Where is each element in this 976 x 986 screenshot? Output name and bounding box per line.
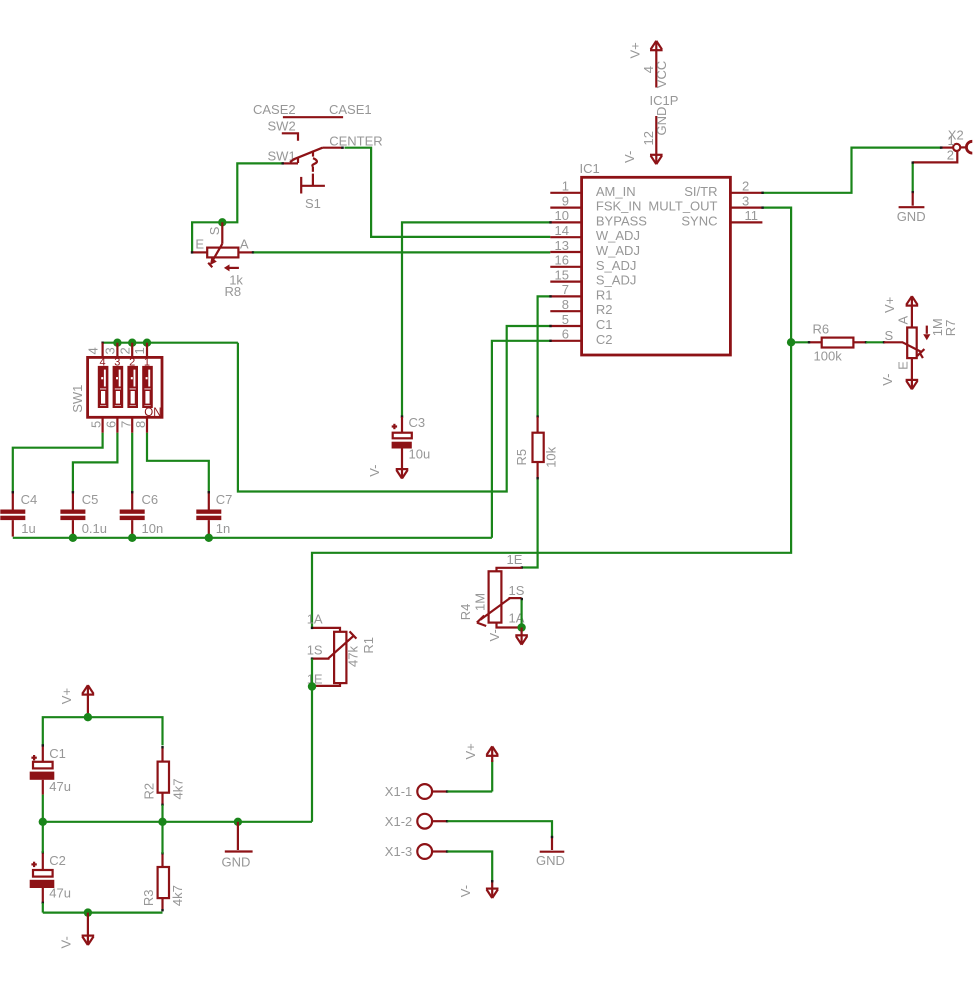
junction C1/C2	[39, 818, 47, 826]
svg-text:R7: R7	[943, 320, 958, 337]
IC1 right pin numbers	[742, 179, 758, 224]
wire R3 top to mid rail	[161, 822, 163, 854]
power symbol IC1P	[650, 41, 663, 164]
svg-text:AM_IN: AM_IN	[596, 184, 636, 199]
capacitor C3 10u polarized	[392, 417, 412, 449]
svg-text:47k: 47k	[346, 646, 361, 667]
svg-text:V-: V-	[458, 885, 473, 897]
capacitor C4 1u	[0, 491, 25, 537]
svg-text:GND: GND	[536, 853, 565, 868]
svg-text:16: 16	[555, 253, 569, 268]
junction C7 bottom	[205, 534, 213, 542]
SW1 inside numbers 4 3 2 1	[100, 356, 151, 368]
svg-text:1: 1	[144, 356, 150, 368]
SW1 slide element 4	[99, 367, 107, 407]
svg-text:R2: R2	[596, 302, 613, 317]
svg-text:C3: C3	[409, 415, 426, 430]
IC1 left pin leads	[550, 193, 581, 341]
svg-text:S1: S1	[305, 196, 321, 211]
wire X1-2 to GND	[448, 821, 553, 837]
svg-text:5: 5	[89, 421, 104, 428]
svg-text:CENTER: CENTER	[329, 134, 382, 149]
connector pin X1-3	[417, 844, 448, 859]
svg-text:100k: 100k	[814, 349, 843, 364]
wire mid GND rail	[43, 821, 312, 823]
wire C2 top to mid rail	[42, 822, 44, 853]
R8 adjust arrow	[224, 264, 239, 271]
IC1 left pin numbers	[555, 179, 569, 342]
svg-text:R4: R4	[458, 604, 473, 621]
SW1 top pin numbers	[86, 347, 147, 354]
svg-text:2: 2	[129, 356, 135, 368]
capacitor C2 47u polarized	[30, 851, 55, 904]
svg-text:3: 3	[102, 347, 117, 354]
connector pin X1-1	[417, 784, 448, 799]
svg-text:1S: 1S	[509, 583, 525, 598]
trimmer R1 47k	[311, 627, 357, 686]
svg-text:X1-2: X1-2	[385, 814, 412, 829]
supply V- (C2 R3 rail)	[82, 913, 95, 945]
svg-text:R5: R5	[514, 449, 529, 466]
junction C5 bottom	[69, 534, 77, 542]
IC1 left pin names	[596, 184, 647, 347]
svg-text:V+: V+	[628, 42, 643, 58]
svg-text:C6: C6	[142, 492, 159, 507]
svg-text:10u: 10u	[409, 446, 431, 461]
svg-text:GND: GND	[654, 107, 669, 136]
svg-text:5: 5	[562, 312, 569, 327]
svg-text:0.1u: 0.1u	[82, 521, 107, 536]
wire C1 bottom to mid rail	[42, 795, 44, 822]
svg-text:BYPASS: BYPASS	[596, 213, 647, 228]
svg-text:10n: 10n	[142, 521, 164, 536]
svg-text:11: 11	[745, 208, 759, 223]
svg-text:3: 3	[114, 356, 120, 368]
supply V+ (X1-1)	[486, 746, 499, 762]
wire R4 1S to 1A	[521, 598, 523, 628]
dip switch SW1	[88, 343, 162, 433]
junction SW1 pin 2	[128, 339, 136, 347]
C2 plus sign	[31, 862, 36, 867]
svg-text:4k7: 4k7	[170, 885, 185, 906]
svg-text:V-: V-	[59, 936, 74, 948]
SW1 slide element 3	[114, 367, 122, 407]
svg-text:X1-3: X1-3	[385, 844, 412, 859]
svg-text:GND: GND	[222, 855, 251, 870]
supply V- below R4	[515, 628, 528, 645]
svg-text:V+: V+	[463, 743, 478, 759]
svg-text:W_ADJ: W_ADJ	[596, 228, 640, 243]
svg-text:E: E	[195, 237, 204, 252]
svg-text:SW2: SW2	[268, 119, 296, 134]
svg-text:1M: 1M	[472, 593, 487, 611]
capacitor C6 10n	[120, 491, 145, 537]
svg-text:SW1: SW1	[70, 385, 85, 413]
supply V+ above R7	[906, 296, 919, 327]
svg-text:IC1: IC1	[580, 161, 600, 176]
svg-text:6: 6	[562, 327, 569, 342]
wire IC1 pin 6 C2 to capacitor rail	[492, 340, 552, 538]
svg-text:2: 2	[117, 347, 132, 354]
svg-text:47u: 47u	[49, 779, 71, 794]
junction SW1 pin 1	[143, 339, 151, 347]
svg-text:1u: 1u	[21, 521, 35, 536]
C1 plus sign	[31, 755, 36, 760]
wire V+ rail C1 R2	[43, 717, 163, 745]
svg-text:R2: R2	[142, 783, 157, 800]
wire R8 A to IC1 pin 13	[254, 251, 551, 253]
svg-text:C2: C2	[49, 853, 66, 868]
wire capacitor bottom rail to IC1 pin 5	[13, 537, 492, 539]
svg-text:A: A	[240, 237, 249, 252]
svg-text:1n: 1n	[216, 521, 230, 536]
wire bottom V- rail	[42, 903, 44, 913]
supply V- below R7	[906, 358, 919, 389]
junction V+ stem	[84, 713, 92, 721]
wire R5 to R4 pin 1E	[521, 477, 539, 569]
svg-text:C1: C1	[49, 746, 66, 761]
svg-text:C1: C1	[596, 317, 613, 332]
junction SW1 pin 3	[113, 339, 121, 347]
svg-text:IC1P: IC1P	[650, 93, 679, 108]
svg-text:2: 2	[947, 148, 954, 163]
svg-text:E: E	[896, 361, 911, 370]
svg-text:V+: V+	[882, 297, 897, 313]
wire SW1 pin 6 to C5	[73, 433, 118, 493]
svg-text:SI/TR: SI/TR	[684, 184, 717, 199]
resistor R6 100k	[808, 338, 867, 348]
junction R2/R3	[158, 818, 166, 826]
svg-text:CASE2: CASE2	[253, 102, 296, 117]
svg-text:12: 12	[641, 131, 656, 145]
svg-text:14: 14	[555, 223, 569, 238]
svg-text:6: 6	[104, 421, 119, 428]
svg-text:1E: 1E	[507, 552, 523, 567]
svg-text:R1: R1	[361, 637, 376, 654]
svg-text:A: A	[896, 316, 911, 325]
capacitor C1 47u polarized	[30, 744, 55, 794]
potentiometer R8 1k	[191, 222, 254, 267]
junction V- stem	[84, 908, 92, 916]
wire IC1 pin 7 R1 to R5	[536, 295, 551, 418]
svg-text:V+: V+	[59, 688, 74, 704]
svg-text:1: 1	[562, 179, 569, 194]
switch SW1 lever and pin	[283, 147, 344, 164]
connector pin X1-2	[417, 814, 448, 829]
push switch S1	[301, 177, 325, 194]
trimmer R4 1M	[477, 568, 522, 628]
svg-text:C5: C5	[82, 492, 99, 507]
svg-text:7: 7	[118, 421, 133, 428]
ground symbol GND (X2)	[899, 193, 925, 207]
svg-text:C4: C4	[21, 492, 38, 507]
capacitor C5 0.1u	[60, 491, 85, 537]
svg-text:15: 15	[555, 267, 569, 282]
IC1 box	[582, 177, 731, 355]
svg-text:1: 1	[132, 347, 147, 354]
svg-text:SYNC: SYNC	[681, 213, 717, 228]
junction GND stem	[234, 818, 242, 826]
wire junction to R6	[791, 341, 809, 343]
svg-text:8: 8	[133, 421, 148, 428]
svg-text:1S: 1S	[307, 642, 323, 657]
trimmer R7 1M	[884, 328, 924, 359]
wire X1-1 to V+	[448, 790, 493, 792]
svg-text:R3: R3	[141, 889, 156, 906]
capacitor C7 1n	[196, 491, 221, 537]
svg-text:2: 2	[742, 179, 749, 194]
wire SW1 pin 7 to C6	[131, 433, 133, 493]
C3 plus sign	[392, 424, 397, 429]
svg-text:V-: V-	[487, 629, 502, 641]
svg-text:S: S	[885, 328, 894, 343]
resistor R3 4k7	[158, 852, 169, 911]
svg-text:X1-1: X1-1	[385, 784, 412, 799]
wire SW1 pin 8 to C7	[147, 433, 209, 493]
IC1 right pin names	[648, 184, 717, 229]
svg-text:10k: 10k	[543, 446, 558, 467]
supply V- (X1-3)	[486, 880, 499, 898]
wire IC1 pin 2 SI/TR to X2 pin 1	[761, 146, 942, 194]
SW1 slide element 1	[143, 367, 151, 407]
svg-text:S_ADJ: S_ADJ	[596, 258, 636, 273]
svg-text:R1: R1	[596, 287, 613, 302]
svg-text:R6: R6	[813, 321, 830, 336]
wire R2 bottom to mid rail	[161, 805, 163, 822]
svg-text:S: S	[207, 226, 222, 235]
svg-text:C7: C7	[216, 492, 233, 507]
wire IC1 pin 3 MULT_OUT down and across to R1	[312, 206, 791, 627]
wire CENTER: SW1 lever to IC1 pin 14	[345, 148, 551, 237]
mechanical link squiggle S1 to SW1	[312, 151, 317, 186]
svg-text:4k7: 4k7	[171, 779, 186, 800]
svg-text:7: 7	[562, 282, 569, 297]
switch SW2 lever CASE2-CASE1	[282, 117, 343, 141]
svg-text:3: 3	[742, 193, 749, 208]
wire IC1 pin 5 C1 to DIP rail	[238, 325, 552, 492]
svg-text:ON: ON	[144, 407, 161, 419]
svg-text:1A: 1A	[307, 611, 323, 626]
R7 adjust arrow	[923, 326, 930, 341]
svg-text:10: 10	[555, 208, 569, 223]
svg-text:1: 1	[948, 133, 955, 148]
wire SW1 pin 5 to C4	[13, 433, 103, 493]
junction R4 1A	[517, 623, 525, 631]
ground symbol GND (mid rail)	[225, 822, 253, 852]
SW1 slide element 2	[129, 367, 137, 407]
svg-text:V-: V-	[880, 374, 895, 386]
IC1 right pin leads	[730, 193, 762, 223]
junction C6 bottom	[128, 534, 136, 542]
svg-text:S_ADJ: S_ADJ	[596, 273, 636, 288]
junction R1 1E	[308, 682, 316, 690]
svg-text:8: 8	[562, 297, 569, 312]
svg-text:9: 9	[562, 193, 569, 208]
svg-text:V-: V-	[367, 465, 382, 477]
svg-text:4: 4	[100, 356, 106, 368]
svg-text:R8: R8	[225, 284, 242, 299]
svg-text:W_ADJ: W_ADJ	[596, 243, 640, 258]
svg-text:4: 4	[86, 347, 101, 354]
dip switch SW1 top rail	[101, 342, 238, 344]
ground symbol GND (X1-2)	[540, 836, 565, 852]
svg-text:47u: 47u	[49, 886, 71, 901]
SW1 bottom pin numbers	[89, 421, 148, 428]
wire X2 pin 2 to GND	[912, 161, 914, 193]
junction R6 tap	[787, 338, 795, 346]
wire R6 to R7 wiper	[866, 341, 885, 343]
junction R8 S	[218, 218, 226, 226]
svg-text:FSK_IN: FSK_IN	[596, 199, 642, 214]
svg-text:MULT_OUT: MULT_OUT	[648, 199, 717, 214]
svg-text:GND: GND	[897, 209, 926, 224]
wire SW1 pivot to R8 wiper/E	[192, 162, 284, 252]
wire R1 1S to 1E to GND rail	[311, 659, 313, 822]
svg-text:VCC: VCC	[654, 61, 669, 88]
wire IC1 pin 10 BYPASS to C3	[401, 221, 552, 418]
supply V+ (C1 R2 rail)	[82, 685, 95, 715]
connector X2	[913, 141, 973, 162]
resistor R5 10k	[533, 417, 544, 478]
svg-text:CASE1: CASE1	[329, 102, 372, 117]
resistor R2 4k7	[158, 746, 169, 806]
svg-text:C2: C2	[596, 332, 613, 347]
wire X1-3 to V-	[448, 852, 493, 882]
svg-text:V-: V-	[622, 151, 637, 163]
svg-text:13: 13	[555, 238, 569, 253]
supply V- below C3	[396, 449, 409, 479]
